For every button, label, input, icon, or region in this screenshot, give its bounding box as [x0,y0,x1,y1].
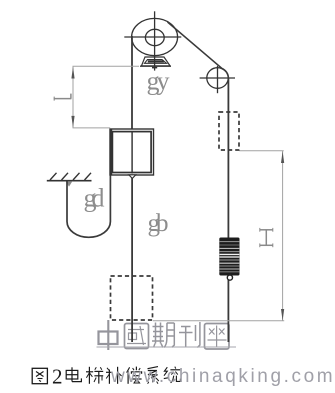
caption 系 [147,367,159,384]
traction sheave gy [124,11,181,70]
compensation rope gd (U-loop) [67,176,110,238]
caption 统 [164,367,181,383]
sheave crosshair [124,36,181,38]
caption 偿 [127,367,142,384]
watermark underline [97,346,237,348]
wire rope: inside car [131,131,133,174]
caption 图 [32,368,47,383]
dimension H: extension lines [153,151,284,321]
wire rope gb: below car [131,178,133,342]
label L (rotated) [54,94,72,101]
deflection pulley [200,66,235,93]
dimension L: line [72,66,74,128]
dimension H: arrows [281,151,284,163]
svg-text:www.chinaqking.com: www.chinaqking.com [110,366,335,387]
sheave base [140,57,171,68]
caption 梯 [86,367,103,384]
wire rope: right fall to pit [227,78,229,342]
svg-text:gb: gb [148,210,169,237]
watermark 中国期刊网 [97,320,237,350]
wire rope: left fall to car [131,36,133,130]
wire rope: sheave to deflection pulley (diagonal) [168,22,229,78]
watermark char 國 [125,324,149,349]
buffer box (dashed, bottom left) [111,276,153,320]
watermark char 期 [152,323,174,348]
car bottom hitch [129,175,136,179]
label H (rotated) [260,228,273,247]
counterweight (dashed, right) [219,112,239,150]
compensation chain block [219,238,239,281]
elevator car [110,129,154,175]
svg-text:gy: gy [147,67,170,96]
caption 电 [66,367,81,381]
support wedge [66,181,73,186]
svg-text:2: 2 [52,365,63,389]
chain end ring [227,275,232,280]
svg-text:gd: gd [84,184,105,213]
dimension L: extension lines [73,66,140,128]
dimension H: line [282,151,284,321]
ceiling support (hatched) [47,173,92,181]
watermark char 網 [205,324,230,350]
watermark char 中 [99,320,118,350]
caption 补 [106,367,122,384]
dimension L: arrows [71,67,74,79]
watermark char 刊 [179,322,200,348]
